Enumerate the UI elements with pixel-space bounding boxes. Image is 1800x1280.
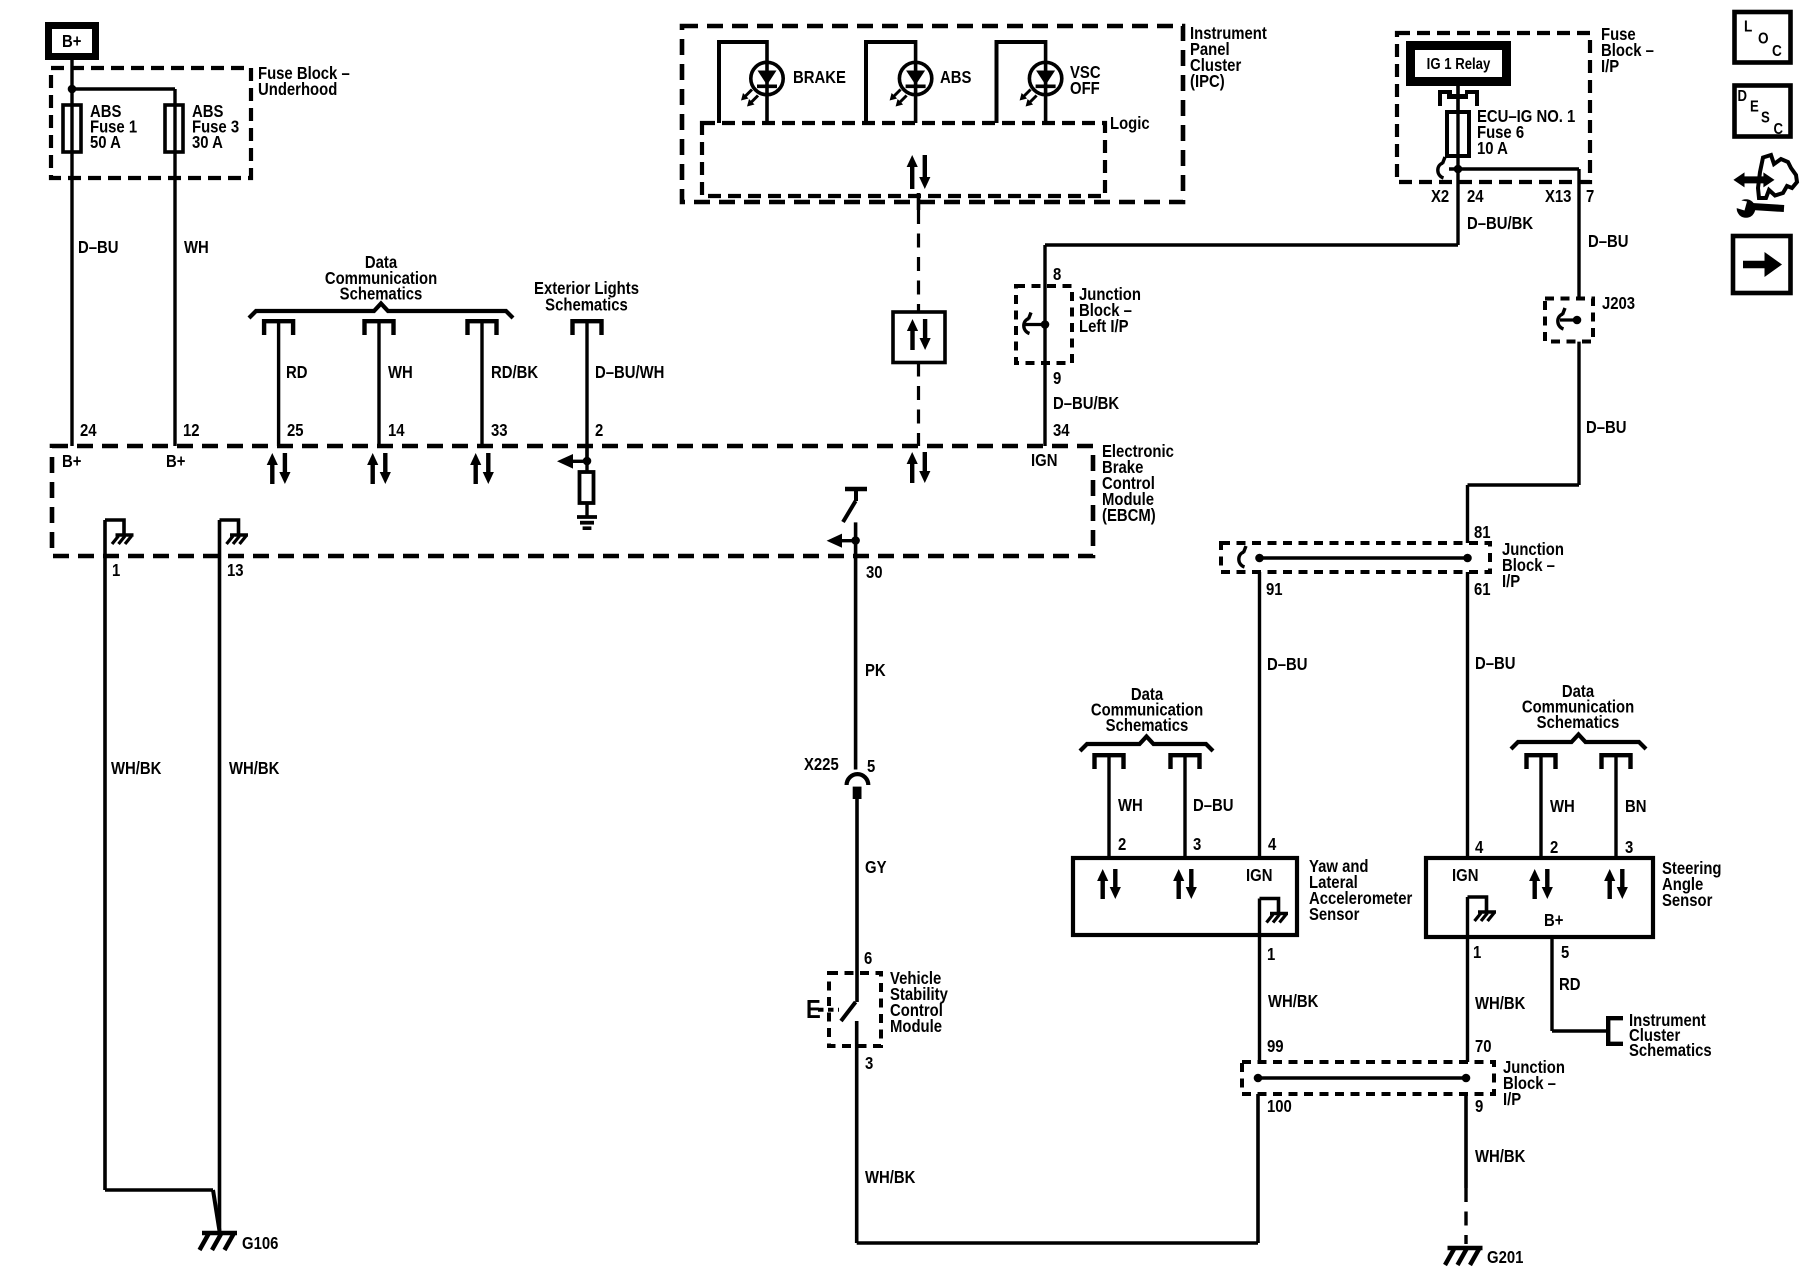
svg-text:70: 70	[1475, 1037, 1492, 1056]
svg-text:OFF: OFF	[1070, 79, 1100, 98]
svg-text:5: 5	[867, 757, 875, 776]
svg-text:B+: B+	[62, 32, 81, 51]
svg-text:J203: J203	[1602, 294, 1635, 313]
svg-text:I/P: I/P	[1601, 57, 1619, 76]
svg-text:RD: RD	[1559, 975, 1581, 994]
svg-text:Schematics: Schematics	[1629, 1041, 1712, 1060]
svg-text:13: 13	[227, 561, 244, 580]
svg-text:2: 2	[595, 421, 603, 440]
svg-text:WH/BK: WH/BK	[229, 759, 280, 778]
svg-text:E: E	[1750, 99, 1759, 116]
svg-text:RD/BK: RD/BK	[491, 363, 538, 382]
svg-text:91: 91	[1266, 580, 1283, 599]
svg-text:14: 14	[388, 421, 405, 440]
svg-text:Sensor: Sensor	[1662, 891, 1713, 910]
svg-text:B+: B+	[62, 452, 81, 471]
svg-text:X225: X225	[804, 755, 839, 774]
svg-text:8: 8	[1053, 265, 1061, 284]
svg-text:3: 3	[1193, 835, 1201, 854]
svg-text:3: 3	[1625, 838, 1633, 857]
svg-text:G106: G106	[242, 1234, 278, 1253]
svg-text:WH: WH	[388, 363, 413, 382]
svg-text:6: 6	[864, 949, 872, 968]
svg-text:B+: B+	[1544, 911, 1563, 930]
svg-text:30: 30	[866, 563, 883, 582]
svg-text:Module: Module	[890, 1017, 942, 1036]
svg-text:L: L	[1744, 19, 1752, 36]
svg-text:WH/BK: WH/BK	[865, 1168, 916, 1187]
svg-text:PK: PK	[865, 661, 886, 680]
svg-text:4: 4	[1475, 838, 1483, 857]
svg-text:1: 1	[112, 561, 120, 580]
svg-text:Logic: Logic	[1110, 114, 1150, 133]
svg-text:5: 5	[1561, 943, 1569, 962]
svg-text:ABS: ABS	[940, 68, 972, 87]
svg-text:BN: BN	[1625, 797, 1646, 816]
svg-text:C: C	[1772, 43, 1782, 60]
svg-text:X13: X13	[1545, 187, 1571, 206]
svg-text:D–BU: D–BU	[1586, 418, 1626, 437]
svg-text:D–BU/WH: D–BU/WH	[595, 363, 664, 382]
svg-text:X2: X2	[1431, 187, 1449, 206]
svg-text:99: 99	[1267, 1037, 1284, 1056]
svg-text:D–BU/BK: D–BU/BK	[1053, 394, 1119, 413]
svg-text:Schematics: Schematics	[1106, 716, 1189, 735]
svg-text:Left I/P: Left I/P	[1079, 317, 1129, 336]
svg-text:IG 1 Relay: IG 1 Relay	[1427, 56, 1491, 73]
svg-text:34: 34	[1053, 421, 1070, 440]
svg-text:G201: G201	[1487, 1248, 1523, 1267]
svg-text:Schematics: Schematics	[1537, 713, 1620, 732]
svg-text:I/P: I/P	[1503, 1090, 1521, 1109]
svg-text:12: 12	[183, 421, 200, 440]
svg-text:81: 81	[1474, 523, 1491, 542]
svg-text:Schematics: Schematics	[545, 295, 628, 314]
svg-text:2: 2	[1118, 835, 1126, 854]
svg-text:IGN: IGN	[1452, 866, 1478, 885]
svg-text:24: 24	[80, 421, 97, 440]
svg-text:25: 25	[287, 421, 304, 440]
svg-text:RD: RD	[286, 363, 308, 382]
svg-text:33: 33	[491, 421, 508, 440]
svg-text:IGN: IGN	[1246, 866, 1272, 885]
svg-text:D–BU: D–BU	[78, 238, 118, 257]
svg-text:4: 4	[1268, 835, 1276, 854]
svg-text:WH/BK: WH/BK	[1475, 1147, 1526, 1166]
svg-text:30 A: 30 A	[192, 133, 223, 152]
svg-text:(IPC): (IPC)	[1190, 72, 1225, 91]
svg-text:9: 9	[1475, 1097, 1483, 1116]
svg-text:WH: WH	[184, 238, 209, 257]
svg-text:D–BU: D–BU	[1588, 232, 1628, 251]
svg-text:Sensor: Sensor	[1309, 905, 1360, 924]
svg-text:C: C	[1774, 121, 1784, 138]
svg-text:24: 24	[1467, 187, 1484, 206]
svg-text:BRAKE: BRAKE	[793, 68, 846, 87]
svg-text:WH/BK: WH/BK	[111, 759, 162, 778]
svg-text:I/P: I/P	[1502, 572, 1520, 591]
svg-text:Underhood: Underhood	[258, 80, 337, 99]
svg-text:61: 61	[1474, 580, 1491, 599]
svg-text:B+: B+	[166, 452, 185, 471]
svg-text:WH: WH	[1118, 796, 1143, 815]
svg-text:IGN: IGN	[1031, 451, 1057, 470]
svg-text:O: O	[1758, 31, 1769, 48]
svg-text:100: 100	[1267, 1097, 1292, 1116]
svg-text:2: 2	[1550, 838, 1558, 857]
svg-text:7: 7	[1586, 187, 1594, 206]
svg-text:1: 1	[1267, 945, 1275, 964]
svg-text:9: 9	[1053, 369, 1061, 388]
svg-text:GY: GY	[865, 858, 887, 877]
svg-text:D–BU: D–BU	[1267, 655, 1307, 674]
svg-text:WH/BK: WH/BK	[1475, 994, 1526, 1013]
svg-text:D–BU: D–BU	[1193, 796, 1233, 815]
svg-text:1: 1	[1473, 943, 1481, 962]
svg-text:3: 3	[865, 1054, 873, 1073]
svg-text:D–BU/BK: D–BU/BK	[1467, 214, 1533, 233]
svg-text:D–BU: D–BU	[1475, 654, 1515, 673]
svg-text:10 A: 10 A	[1477, 139, 1508, 158]
svg-text:WH: WH	[1550, 797, 1575, 816]
svg-text:(EBCM): (EBCM)	[1102, 506, 1156, 525]
svg-text:D: D	[1738, 88, 1748, 105]
svg-text:WH/BK: WH/BK	[1268, 992, 1319, 1011]
svg-text:50 A: 50 A	[90, 133, 121, 152]
svg-text:S: S	[1761, 110, 1770, 127]
